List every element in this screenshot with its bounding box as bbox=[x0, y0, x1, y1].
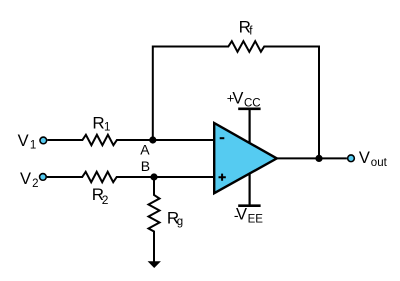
+VCC supply wire into op-amp bbox=[249, 109, 251, 144]
svg-text:out: out bbox=[371, 157, 388, 169]
svg-text:B: B bbox=[141, 158, 150, 174]
svg-text:V: V bbox=[359, 149, 370, 167]
op-amp inverting input minus symbol bbox=[220, 137, 225, 139]
ground arrowhead bbox=[148, 261, 161, 268]
terminal Vout bbox=[348, 155, 355, 162]
svg-text:V: V bbox=[20, 170, 31, 188]
svg-text:V: V bbox=[232, 90, 243, 108]
svg-text:EE: EE bbox=[248, 214, 264, 226]
svg-text:CC: CC bbox=[244, 97, 261, 109]
wire Rg branch: node B down through resistor Rg zigzag to ground arrow bbox=[149, 177, 160, 262]
svg-text:V: V bbox=[236, 206, 247, 224]
terminal V1 bbox=[40, 137, 47, 144]
node A junction dot bbox=[149, 136, 156, 143]
svg-text:2: 2 bbox=[32, 178, 38, 190]
node B junction dot bbox=[150, 173, 157, 180]
+VCC supply bar bbox=[238, 108, 260, 111]
svg-text:2: 2 bbox=[102, 193, 109, 207]
op-amp U1 triangle body bbox=[214, 123, 277, 193]
wire V1 lead with resistor R1 zigzag to op-amp inverting input bbox=[47, 135, 214, 145]
-VEE supply bar bbox=[238, 204, 260, 207]
svg-text:V: V bbox=[18, 132, 29, 150]
wire V2 lead with resistor R2 zigzag to op-amp non-inverting input bbox=[47, 172, 215, 182]
output junction dot bbox=[315, 155, 322, 162]
svg-text:A: A bbox=[140, 141, 150, 157]
wire op-amp output to Vout terminal bbox=[277, 157, 347, 159]
svg-text:g: g bbox=[177, 216, 183, 228]
terminal V2 bbox=[40, 174, 47, 181]
svg-text:1: 1 bbox=[30, 139, 36, 151]
op-amp non-inverting input plus symbol bbox=[219, 174, 226, 181]
wire feedback loop with resistor Rf zigzag (node A up, across, down to output) bbox=[153, 41, 319, 158]
svg-text:R: R bbox=[92, 113, 104, 132]
svg-text:1: 1 bbox=[104, 121, 110, 133]
-VEE supply wire from op-amp bbox=[249, 173, 251, 206]
